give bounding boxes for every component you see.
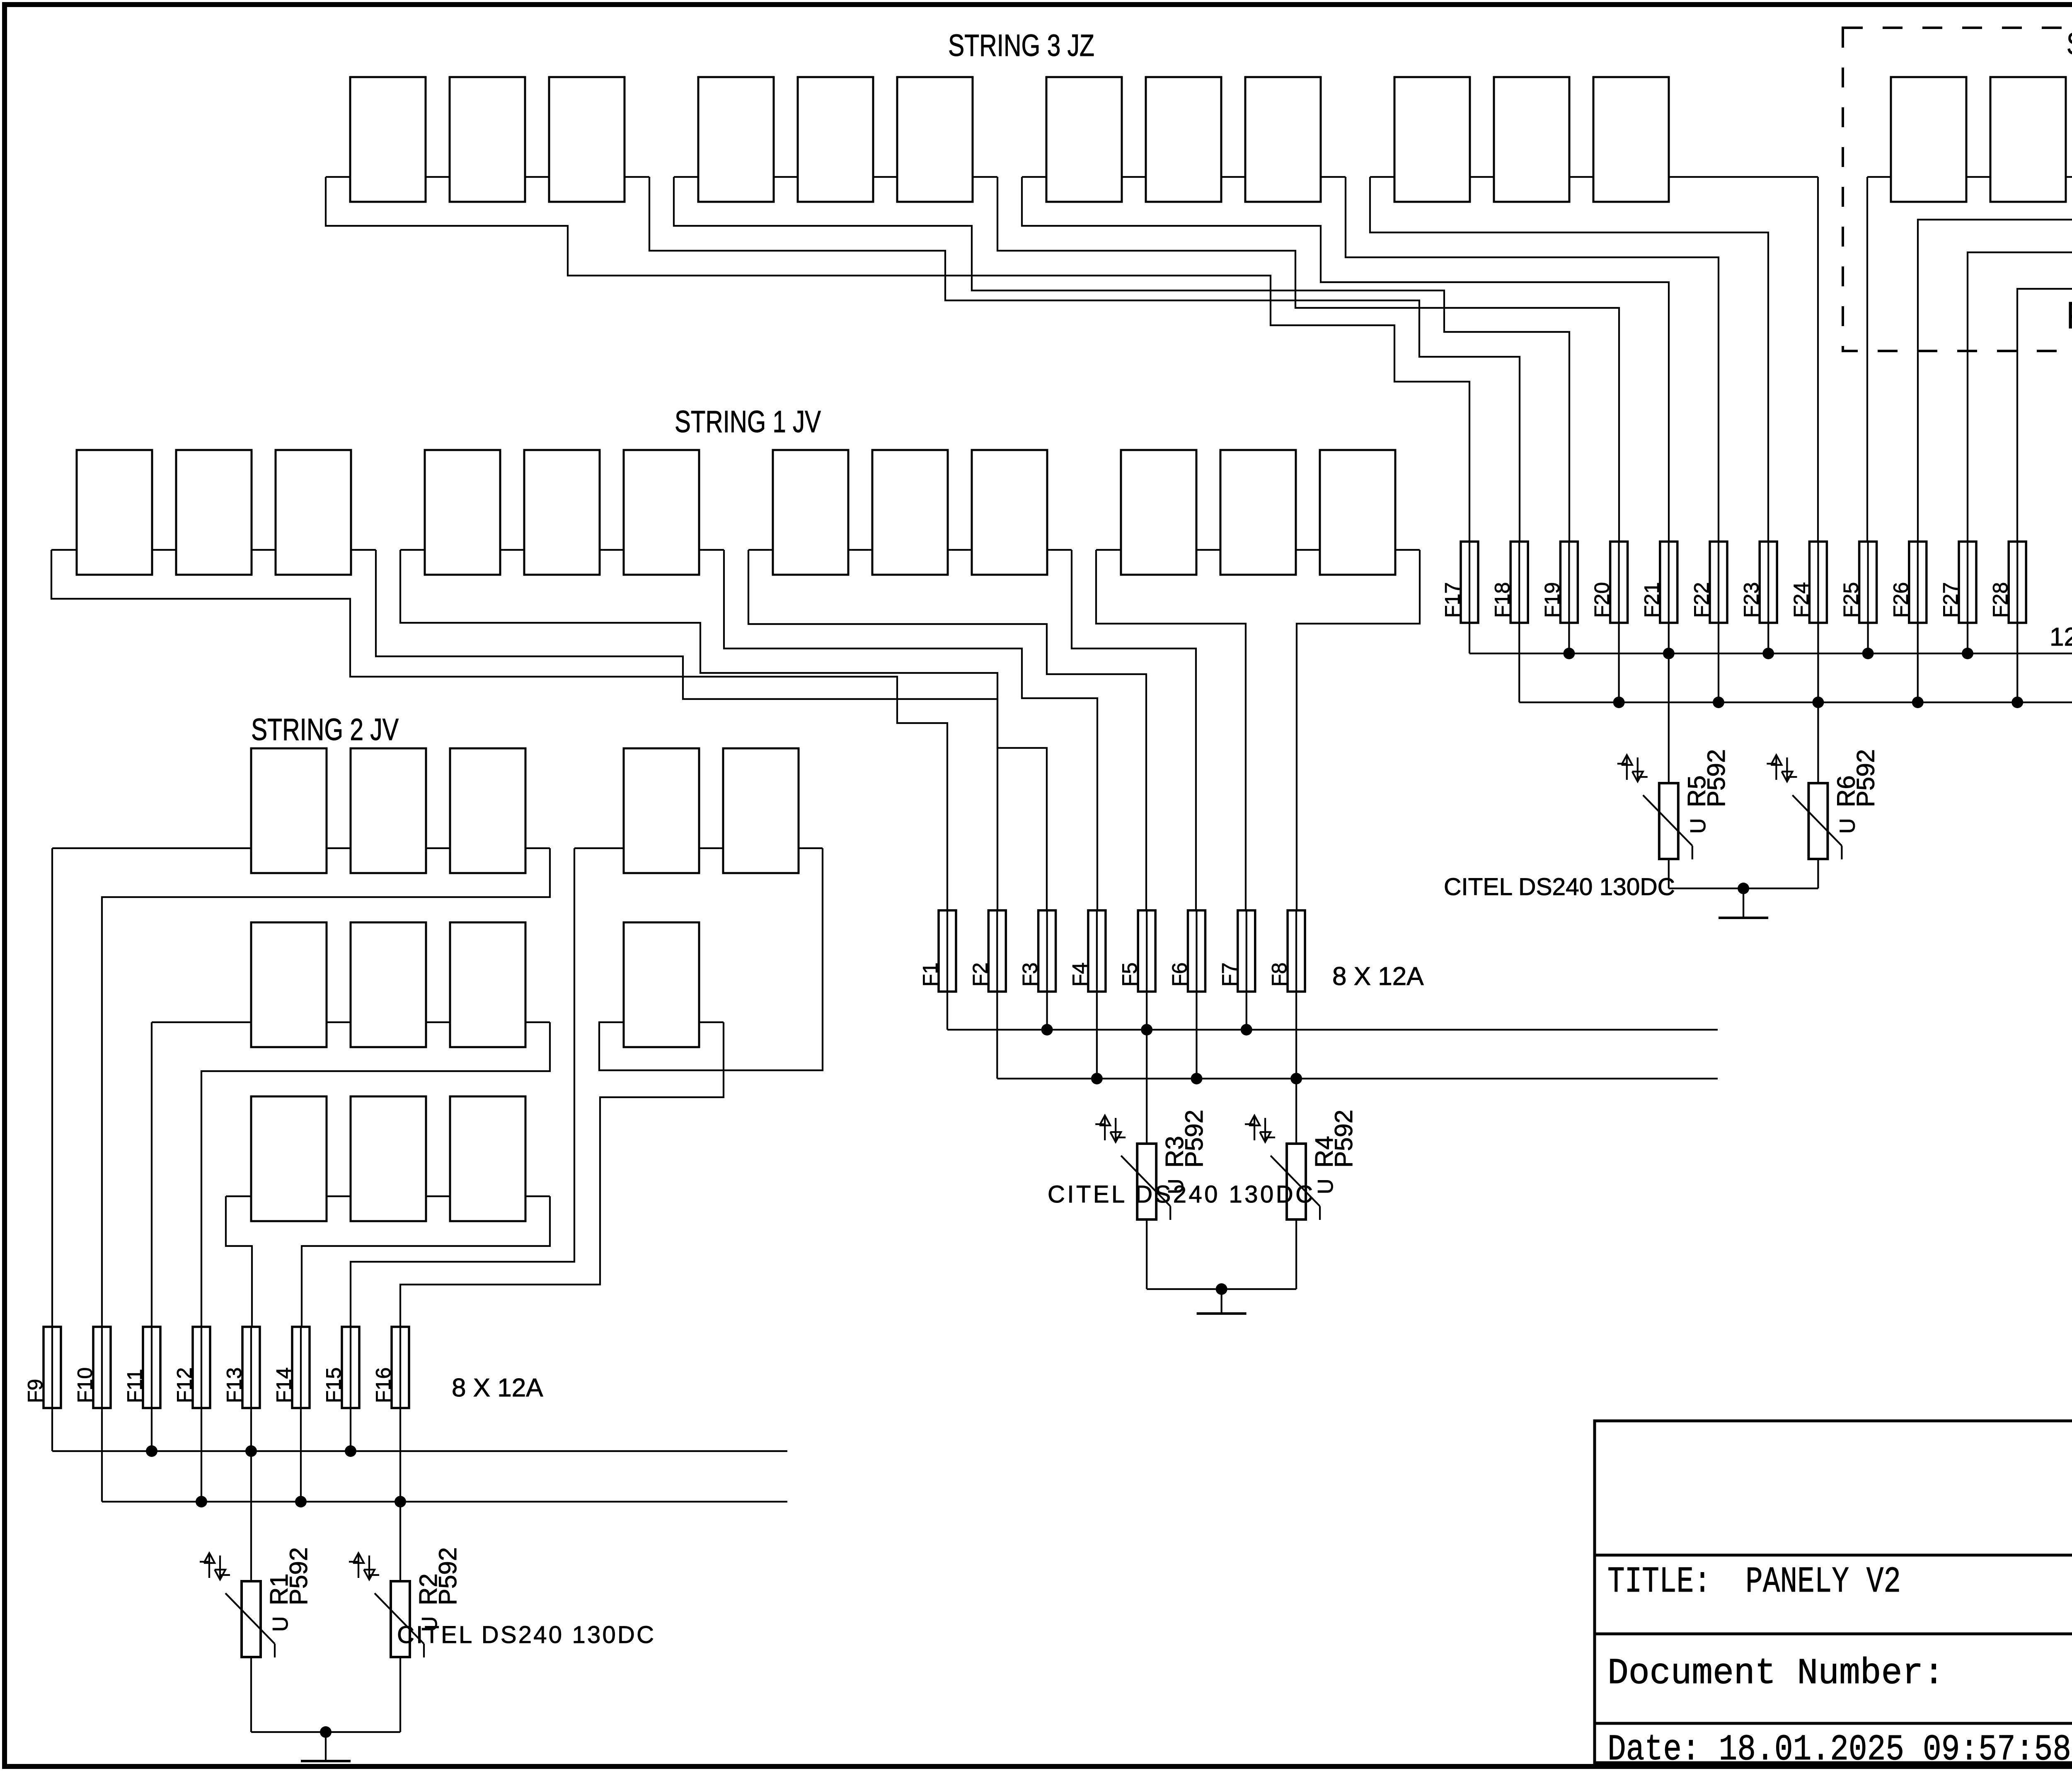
svg-text:F8: F8 bbox=[1268, 963, 1291, 987]
svg-text:STRING 2 JV: STRING 2 JV bbox=[251, 712, 399, 747]
svg-text:F6: F6 bbox=[1168, 963, 1191, 987]
svg-text:P592: P592 bbox=[1330, 1110, 1358, 1168]
svg-text:F4: F4 bbox=[1068, 963, 1092, 987]
svg-text:U: U bbox=[1314, 1178, 1338, 1194]
svg-text:CITEL DS240 130DC: CITEL DS240 130DC bbox=[1444, 873, 1675, 900]
svg-text:F19: F19 bbox=[1540, 582, 1564, 618]
svg-text:Probiha montaz: Probiha montaz bbox=[2067, 294, 2072, 336]
svg-text:F13: F13 bbox=[223, 1367, 246, 1403]
svg-text:P592: P592 bbox=[285, 1547, 312, 1605]
svg-text:P592: P592 bbox=[434, 1547, 462, 1605]
svg-text:F25: F25 bbox=[1840, 582, 1863, 618]
svg-text:F1: F1 bbox=[919, 963, 942, 987]
svg-text:U: U bbox=[1686, 818, 1710, 834]
svg-text:U: U bbox=[269, 1616, 293, 1632]
svg-text:F17: F17 bbox=[1441, 582, 1464, 618]
svg-text:F9: F9 bbox=[24, 1379, 47, 1403]
svg-text:F21: F21 bbox=[1640, 582, 1663, 618]
svg-text:F12: F12 bbox=[173, 1367, 196, 1403]
svg-text:TITLE: PANELY V2: TITLE: PANELY V2 bbox=[1607, 1562, 1901, 1603]
svg-text:8 X 12A: 8 X 12A bbox=[452, 1374, 543, 1402]
svg-text:12 X 12A: 12 X 12A bbox=[2050, 623, 2072, 651]
svg-text:F3: F3 bbox=[1019, 963, 1042, 987]
svg-text:CITEL DS240 130DC: CITEL DS240 130DC bbox=[1048, 1181, 1313, 1208]
svg-text:F20: F20 bbox=[1590, 582, 1614, 618]
svg-text:F27: F27 bbox=[1939, 582, 1962, 618]
svg-text:F26: F26 bbox=[1889, 582, 1912, 618]
svg-text:P592: P592 bbox=[1702, 749, 1730, 807]
svg-text:F16: F16 bbox=[372, 1367, 395, 1403]
svg-text:8 X 12A: 8 X 12A bbox=[1332, 962, 1424, 991]
svg-text:STRING 3 JZ: STRING 3 JZ bbox=[948, 28, 1094, 63]
svg-text:F7: F7 bbox=[1218, 963, 1241, 987]
svg-text:F10: F10 bbox=[73, 1367, 97, 1403]
svg-text:STRING 1 JV: STRING 1 JV bbox=[675, 404, 821, 439]
svg-text:F15: F15 bbox=[322, 1367, 345, 1403]
svg-text:F22: F22 bbox=[1690, 582, 1713, 618]
svg-text:F5: F5 bbox=[1118, 963, 1141, 987]
svg-text:P592: P592 bbox=[1852, 749, 1879, 807]
svg-text:STRING 3 JV FASADA: STRING 3 JV FASADA bbox=[2067, 27, 2072, 61]
svg-text:F28: F28 bbox=[1989, 582, 2012, 618]
svg-text:F24: F24 bbox=[1789, 582, 1813, 618]
svg-text:U: U bbox=[1835, 818, 1859, 834]
svg-text:F11: F11 bbox=[123, 1369, 146, 1403]
svg-text:F2: F2 bbox=[968, 963, 992, 987]
svg-text:CITEL DS240 130DC: CITEL DS240 130DC bbox=[397, 1621, 654, 1648]
svg-text:Document Number:: Document Number: bbox=[1607, 1653, 1944, 1694]
svg-text:P592: P592 bbox=[1180, 1110, 1208, 1168]
svg-text:F23: F23 bbox=[1740, 582, 1763, 618]
svg-text:F14: F14 bbox=[272, 1367, 295, 1403]
svg-text:F18: F18 bbox=[1491, 582, 1514, 618]
